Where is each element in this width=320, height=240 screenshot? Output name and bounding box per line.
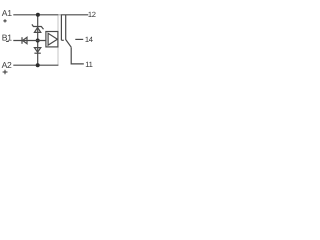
svg-text:14: 14 (85, 35, 93, 44)
polarity minus under B1 (6, 40, 9, 42)
terminal label B1 (2, 32, 12, 42)
node junction dot A2 (36, 63, 40, 67)
svg-text:A1: A1 (2, 8, 12, 18)
diode D3 triangle apex left (23, 37, 27, 43)
svg-text:A2: A2 (2, 60, 12, 70)
svg-text:11: 11 (85, 60, 92, 69)
wire 12 line with corner down (61, 15, 88, 41)
polarity plus under A1 (3, 19, 6, 22)
wire faint right-edge vertical A1 to A2 (57, 15, 59, 65)
wire B1 (13, 40, 46, 42)
output driver box U1 (46, 32, 58, 47)
wire center vertical (37, 15, 39, 65)
suppressor Z-diode D1 triangle apex up (34, 28, 40, 33)
diode D2 cathode bar (34, 52, 40, 54)
wire light bridge A1 rail to 12 line (58, 14, 61, 16)
node junction dot B1 (36, 39, 40, 43)
wire A2 rail (13, 64, 58, 66)
polarity plus under A2 (3, 70, 8, 74)
node junction dot A1 (36, 13, 40, 17)
svg-text:12: 12 (88, 10, 96, 19)
wire A1 rail (13, 14, 58, 16)
terminal label 14 (85, 35, 93, 44)
terminal label 12 (88, 10, 96, 19)
diode D2 apex down (34, 48, 40, 53)
wire 11 riser and bottom line (71, 47, 84, 64)
contact fixed 14 stub (75, 38, 83, 40)
terminal label A2 (2, 60, 12, 70)
suppressor Z-diode D1 bar with bent ends (32, 24, 44, 29)
terminal label A1 (2, 8, 12, 18)
contact moving lever (66, 15, 72, 47)
triangle inside U1 (48, 33, 57, 45)
contact fixed 12 foot (61, 39, 63, 41)
diode D3 cathode bar (21, 37, 23, 44)
terminal label 11 (85, 60, 92, 69)
